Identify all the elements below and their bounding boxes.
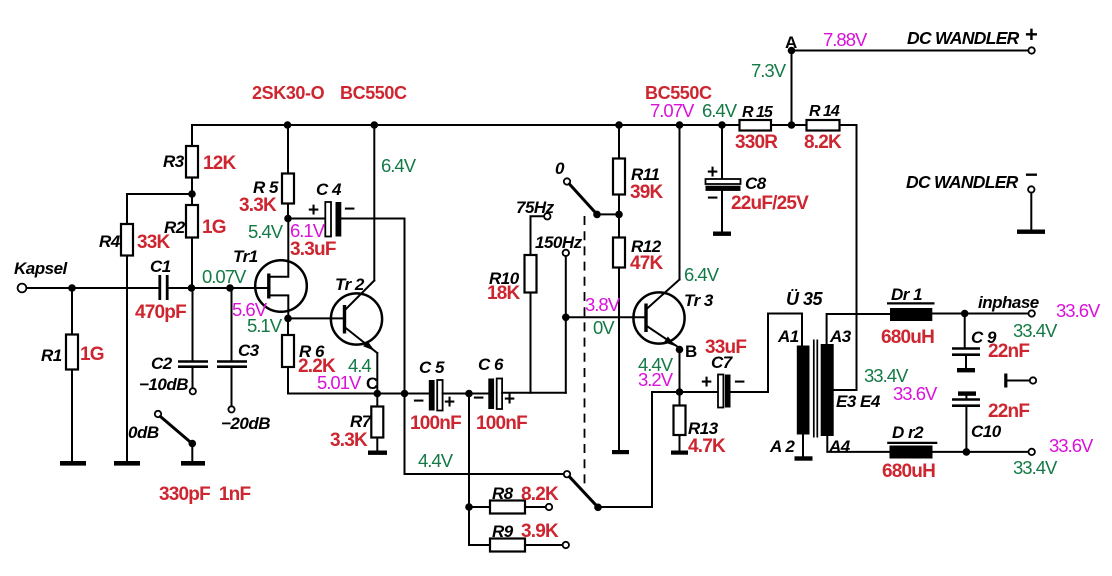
ground switch 0dB <box>181 461 205 466</box>
svg-text:6.4V: 6.4V <box>684 264 720 285</box>
wire node A to DC WANDLER + <box>792 47 1035 53</box>
node 150Hz base branch <box>562 314 570 322</box>
voltage 5.6V <box>232 299 268 320</box>
node C emitter <box>374 390 382 398</box>
svg-text:0dB: 0dB <box>128 423 159 442</box>
contact 150Hz <box>535 233 583 256</box>
node filter column <box>401 390 409 398</box>
winding tap E3 E4 <box>834 314 881 411</box>
title 2SK30-O BC550C <box>252 83 407 103</box>
svg-text:−: − <box>707 188 718 209</box>
node rail-R11 <box>615 121 623 129</box>
resistor R5 <box>239 125 294 219</box>
svg-text:100nF: 100nF <box>410 413 461 434</box>
svg-text:8.2K: 8.2K <box>804 132 842 153</box>
svg-text:330R: 330R <box>735 132 778 153</box>
voltage 33.6V top out <box>1056 300 1101 321</box>
wire R8-R9 column <box>468 394 470 546</box>
voltage 7.88V <box>823 29 868 50</box>
svg-text:inphase: inphase <box>978 293 1039 312</box>
svg-text:R9: R9 <box>492 522 514 541</box>
resistor R10 <box>487 216 544 392</box>
svg-text:2SK30-O: 2SK30-O <box>252 83 325 103</box>
voltage 5.1V <box>247 315 283 336</box>
svg-text:6.4V: 6.4V <box>381 155 417 176</box>
ground R4 <box>114 461 140 466</box>
node B <box>676 342 698 361</box>
node rail-Tr2 collector <box>371 121 379 129</box>
wire C6 to 150Hz column <box>502 392 566 394</box>
svg-text:150Hz: 150Hz <box>535 233 583 252</box>
resistor R3 <box>163 125 237 194</box>
svg-text:R4: R4 <box>99 232 121 251</box>
wire R4 branch <box>127 194 192 224</box>
svg-text:3.9K: 3.9K <box>521 521 559 542</box>
svg-text:Tr 2: Tr 2 <box>335 275 365 294</box>
switch bottom (bass cut) <box>564 471 602 511</box>
svg-text:4.7K: 4.7K <box>688 436 726 457</box>
svg-text:BC550C: BC550C <box>340 83 407 103</box>
svg-text:C10: C10 <box>971 422 1002 441</box>
svg-text:E3 E4: E3 E4 <box>836 392 881 411</box>
capacitor C9 <box>952 314 1029 369</box>
voltage 7.3V <box>751 60 787 81</box>
svg-text:5.01V: 5.01V <box>317 372 362 393</box>
svg-text:33.6V: 33.6V <box>1049 435 1094 456</box>
capacitor C6 <box>473 355 527 434</box>
resistor R9 <box>469 521 569 552</box>
svg-text:Ü 35: Ü 35 <box>786 289 824 309</box>
wire emitter node to bottom switch <box>598 392 680 507</box>
svg-text:C3: C3 <box>238 341 260 360</box>
voltage 6.4V Tr3 <box>684 264 720 285</box>
ground R12 <box>612 450 629 454</box>
node emitter-C7-R13 <box>676 388 684 396</box>
voltage 33.6V tap <box>893 383 938 404</box>
resistor R4 <box>99 224 171 460</box>
svg-text:C 6: C 6 <box>478 355 504 374</box>
svg-text:C 5: C 5 <box>419 358 445 377</box>
transistor Tr2 <box>288 125 382 394</box>
voltage 0V <box>593 317 615 338</box>
svg-text:7.3V: 7.3V <box>751 60 787 81</box>
voltage 4.4V Tr3 <box>638 354 674 375</box>
svg-text:Tr 3: Tr 3 <box>684 291 714 310</box>
value 3.3uF <box>290 239 336 260</box>
capacitor C8 <box>706 125 810 231</box>
wire Dr2 to output <box>933 451 1029 453</box>
voltage 6.4V left <box>381 155 417 176</box>
svg-text:A3: A3 <box>829 327 852 346</box>
resistor R11 <box>613 125 664 214</box>
resistor R6 <box>282 318 377 393</box>
wire filter bottom row <box>405 473 564 475</box>
voltage 4.4V filter <box>418 450 454 471</box>
transformer core <box>814 340 818 438</box>
svg-text:−: − <box>413 391 424 412</box>
svg-text:22uF/25V: 22uF/25V <box>731 193 809 214</box>
svg-text:22nF: 22nF <box>988 341 1029 362</box>
node R5-C4-drain <box>284 215 292 223</box>
svg-text:22nF: 22nF <box>988 401 1029 422</box>
capacitor C3 <box>217 288 270 433</box>
svg-text:+: + <box>444 392 455 413</box>
svg-text:330pF 1nF: 330pF 1nF <box>159 484 250 505</box>
svg-text:C8: C8 <box>745 174 767 193</box>
voltage 0.07V <box>202 266 247 287</box>
node R11-R12 <box>615 211 623 219</box>
svg-text:0.07V: 0.07V <box>202 266 247 287</box>
voltage 3.2V <box>638 369 674 390</box>
svg-text:12K: 12K <box>203 153 237 174</box>
wire 150Hz column <box>565 256 567 393</box>
svg-text:Kapsel: Kapsel <box>14 259 69 278</box>
svg-text:+: + <box>701 372 712 393</box>
svg-text:Tr1: Tr1 <box>233 247 258 266</box>
svg-text:−: − <box>734 372 745 393</box>
voltage 33.4V bottom out <box>1013 457 1058 478</box>
svg-text:4.4V: 4.4V <box>418 450 454 471</box>
node C9 <box>961 310 969 318</box>
svg-text:6.1V: 6.1V <box>290 220 326 241</box>
svg-text:5.1V: 5.1V <box>247 315 283 336</box>
node C5-C6 / R8 column <box>465 390 473 398</box>
value label 330pF 1nF <box>159 484 250 505</box>
transformer secondary winding A3-A4 <box>821 314 890 456</box>
svg-text:R7: R7 <box>350 412 373 431</box>
label DC WANDLER - terminal <box>906 162 1038 229</box>
output terminal inphase <box>978 293 1039 317</box>
wire C4 to filter column <box>404 219 406 475</box>
svg-text:470pF: 470pF <box>135 302 186 323</box>
Kapsel input terminal <box>14 259 69 292</box>
wire node C to C5 <box>377 393 429 395</box>
svg-text:680uH: 680uH <box>881 327 934 348</box>
svg-text:D r2: D r2 <box>892 423 924 442</box>
svg-text:7.88V: 7.88V <box>823 29 868 50</box>
svg-text:C 4: C 4 <box>316 180 342 199</box>
ground C9 <box>957 368 975 372</box>
svg-text:1G: 1G <box>202 217 226 238</box>
voltage 4.4 <box>348 355 371 376</box>
wire R14 to transformer column <box>840 125 857 390</box>
wire C5 to C6 <box>443 393 489 395</box>
svg-text:−: − <box>1025 162 1038 187</box>
capacitor C2 <box>139 288 208 394</box>
node R3-R2-R4 <box>188 190 196 198</box>
transformer U35 primary winding A1-A2 <box>769 289 824 456</box>
switch 0dB <box>128 411 196 460</box>
ground A2 <box>795 456 813 460</box>
capacitor C7 <box>680 337 769 408</box>
svg-text:680uH: 680uH <box>882 461 935 482</box>
svg-text:3.2V: 3.2V <box>638 369 674 390</box>
node R8 tap <box>465 503 473 511</box>
resistor R13 <box>674 392 727 457</box>
svg-text:A 2: A 2 <box>769 437 795 456</box>
svg-text:Dr 1: Dr 1 <box>891 285 922 304</box>
svg-text:A4: A4 <box>828 437 851 456</box>
svg-text:33.6V: 33.6V <box>893 383 938 404</box>
node gate-C3 <box>226 284 234 292</box>
resistor R15 <box>735 104 778 153</box>
svg-text:A1: A1 <box>777 327 799 346</box>
svg-text:C2: C2 <box>151 354 173 373</box>
svg-text:33K: 33K <box>137 232 171 253</box>
transistor Tr3 <box>633 125 714 348</box>
svg-text:6.4V: 6.4V <box>702 100 738 121</box>
wire supply rail <box>192 124 857 126</box>
ground R7 <box>368 451 387 455</box>
node Tr1 source / Tr2 base <box>284 315 292 323</box>
node rail-C8 <box>718 121 726 129</box>
svg-text:33.6V: 33.6V <box>1056 300 1101 321</box>
wire input line <box>27 287 160 289</box>
svg-text:3.3K: 3.3K <box>239 195 277 216</box>
svg-text:7.07V: 7.07V <box>650 100 695 121</box>
wire C7 to transformer A1 <box>768 314 802 393</box>
contact 75Hz <box>516 198 555 220</box>
node C10 <box>963 448 971 456</box>
svg-text:−20dB: −20dB <box>221 414 270 433</box>
output terminal bottom <box>1029 449 1035 455</box>
capacitor C10 <box>952 391 1029 452</box>
svg-text:C1: C1 <box>150 257 171 276</box>
svg-text:R 15: R 15 <box>742 104 774 121</box>
middle common terminal <box>1006 374 1036 388</box>
svg-text:39K: 39K <box>630 182 664 203</box>
svg-text:−10dB: −10dB <box>139 375 188 394</box>
svg-text:+: + <box>308 200 319 221</box>
svg-text:R1: R1 <box>41 346 62 365</box>
inductor Dr1 <box>881 285 935 348</box>
title BC550C (Tr3) <box>645 83 712 103</box>
inductor Dr2 <box>882 423 937 482</box>
svg-text:100nF: 100nF <box>476 413 527 434</box>
svg-text:+: + <box>1025 22 1038 47</box>
svg-text:R 14: R 14 <box>809 103 840 120</box>
svg-text:R3: R3 <box>163 152 185 171</box>
voltage 33.6V bottom out <box>1049 435 1094 456</box>
ground C8 <box>713 232 731 236</box>
svg-text:3.8V: 3.8V <box>585 294 621 315</box>
voltage 5.4V <box>248 221 284 242</box>
voltage 33.4V tap <box>864 365 909 386</box>
voltage 3.8V <box>585 294 621 315</box>
wire B to emitter node <box>679 350 681 393</box>
svg-text:0V: 0V <box>593 317 615 338</box>
switch 0 (top) <box>555 159 619 218</box>
svg-text:18K: 18K <box>487 283 521 304</box>
capacitor C1 <box>135 257 186 323</box>
svg-text:0: 0 <box>555 159 565 178</box>
svg-text:3.3uF: 3.3uF <box>290 239 336 260</box>
svg-text:−: − <box>344 199 355 220</box>
wire gate line <box>167 287 269 289</box>
resistor R12 <box>613 214 664 450</box>
node rail-Tr3 collector <box>676 121 684 129</box>
node C1-R2-C2 <box>188 284 196 292</box>
resistor R8 <box>469 484 559 514</box>
node A <box>785 33 797 125</box>
svg-text:33.4V: 33.4V <box>1013 320 1058 341</box>
node input-R1 <box>68 284 76 292</box>
transistor Tr1 (JFET 2SK30) <box>233 219 307 319</box>
ground R1 <box>60 461 86 466</box>
wire Dr1 to output <box>932 313 1028 315</box>
node A junction on rail <box>788 121 796 129</box>
svg-text:47K: 47K <box>630 253 664 274</box>
voltage 5.01V node C <box>317 372 378 393</box>
dashed coupling line <box>584 216 586 484</box>
svg-text:DC WANDLER: DC WANDLER <box>906 172 1019 192</box>
resistor R7 <box>330 394 383 452</box>
voltage 7.07V <box>650 100 695 121</box>
svg-text:DC WANDLER: DC WANDLER <box>907 28 1020 48</box>
capacitor C4 <box>288 180 405 237</box>
voltage 6.4V rail <box>702 100 738 121</box>
svg-text:R8: R8 <box>492 484 514 503</box>
capacitor C5 <box>410 358 461 434</box>
svg-text:+: + <box>707 162 718 183</box>
svg-text:33.4V: 33.4V <box>1013 457 1058 478</box>
svg-text:8.2K: 8.2K <box>521 484 559 505</box>
node rail-R5 <box>284 121 292 129</box>
svg-text:−: − <box>473 388 484 409</box>
resistor R14 <box>804 103 842 153</box>
svg-text:3.3K: 3.3K <box>330 430 368 451</box>
svg-text:B: B <box>685 342 697 361</box>
ground DC WANDLER - <box>1017 230 1045 234</box>
label DC WANDLER + <box>907 22 1038 48</box>
voltage 33.4V top out <box>1013 320 1058 341</box>
svg-text:5.4V: 5.4V <box>248 221 284 242</box>
resistor R2 <box>164 194 226 288</box>
ground R13 <box>671 451 688 455</box>
voltage 6.1V <box>290 220 326 241</box>
wire Tr3 base <box>566 316 646 318</box>
svg-text:C7: C7 <box>711 353 734 372</box>
svg-text:1G: 1G <box>80 344 104 365</box>
resistor R1 <box>41 291 104 460</box>
